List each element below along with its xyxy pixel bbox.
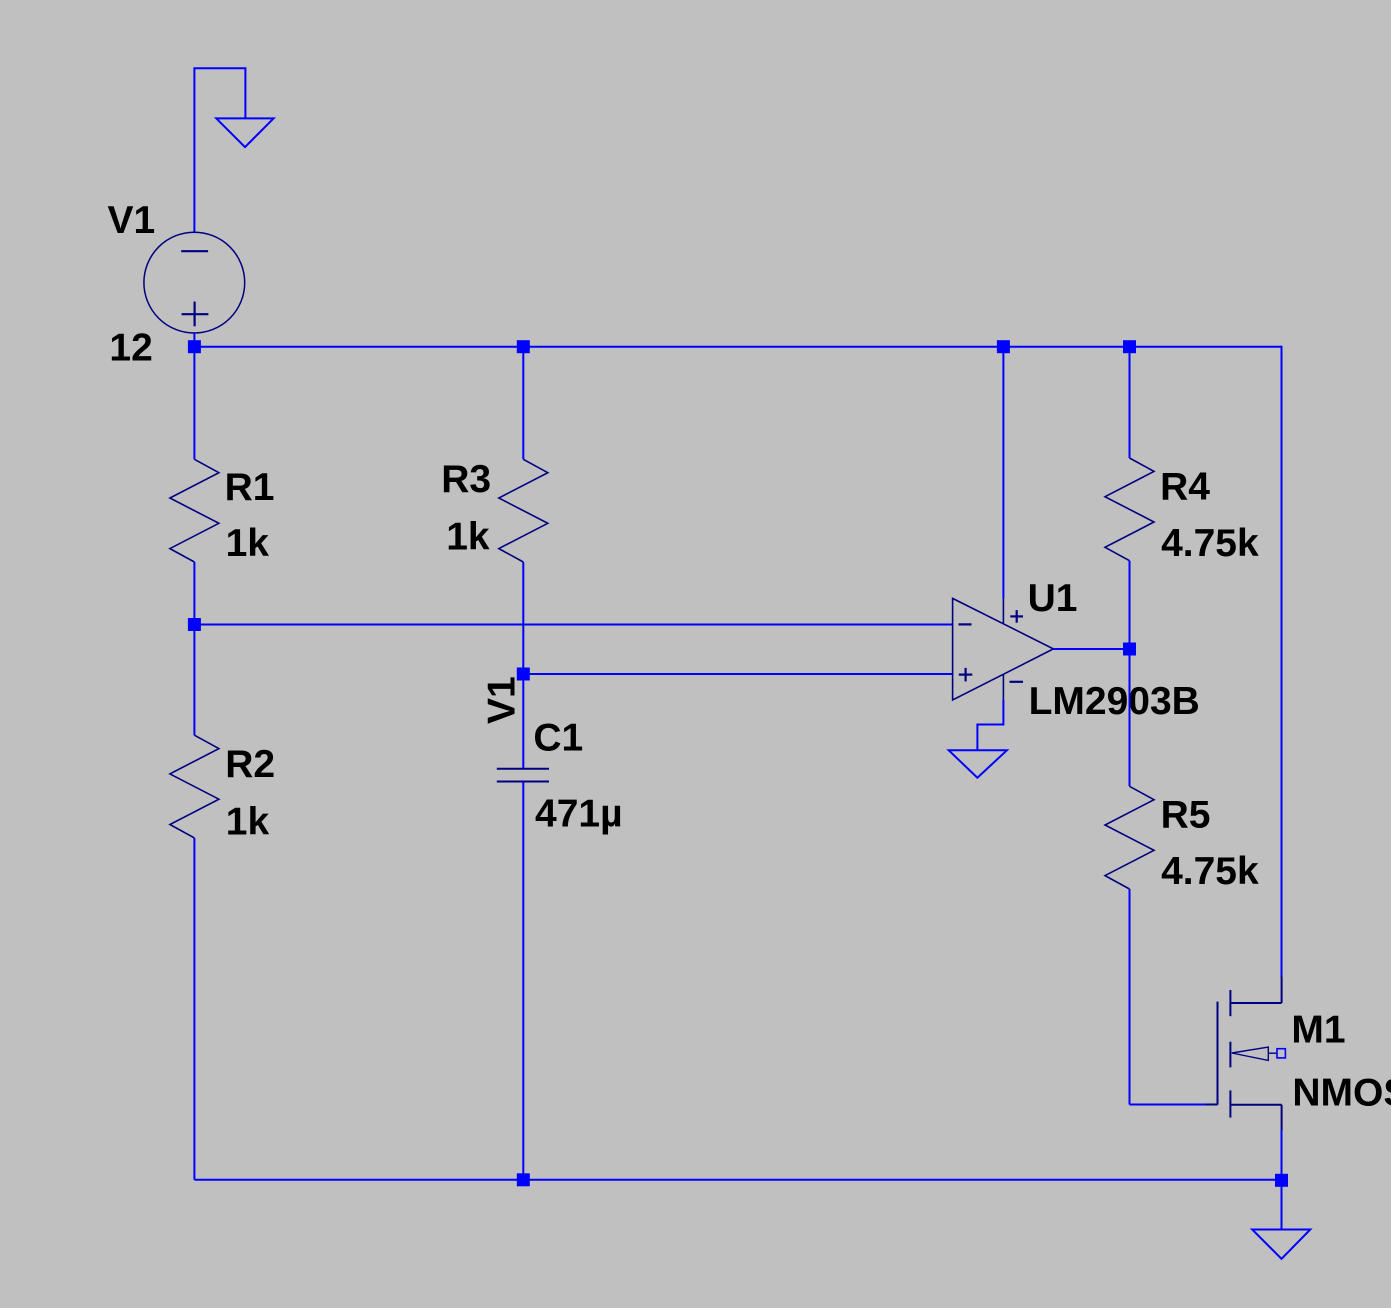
wire op-amp V- jog [977,700,1003,750]
node at op-amp output / R4 / R5 [1123,643,1136,656]
wire V1 bottom lead [193,333,195,347]
wire non-inverting input (horizontal) [523,673,952,675]
wire M1 source down [1281,1130,1283,1180]
node at C1 / bottom rail [517,1173,530,1186]
transistor M1 gate bar [1217,1002,1219,1105]
wire R3 top lead [522,347,524,460]
svg-text:1k: 1k [226,800,270,843]
wire bottom rail [194,1179,1281,1181]
svg-text:M1: M1 [1291,1008,1345,1051]
transistor M1 gate pin stub [1206,1104,1218,1106]
node at M1 source / bottom rail [1275,1174,1288,1187]
wire C1 top lead [522,674,524,769]
svg-text:R3: R3 [441,458,491,501]
wire R5 top lead [1129,649,1131,786]
wire top rail [194,346,1281,348]
wire R2 bottom lead [193,838,195,1180]
wire R4 bottom lead [1129,561,1131,649]
transistor M1 source pin stub [1281,1105,1283,1131]
svg-text:U1: U1 [1028,577,1078,620]
svg-text:LM2903B: LM2903B [1029,680,1200,723]
node at R3/C1 [517,668,530,681]
op-amp V- pin stub [1002,674,1004,700]
svg-text:V1: V1 [481,676,524,724]
resistor R1 [170,459,219,562]
ground (top, near V1) [216,118,273,147]
transistor M1 source channel bar [1229,1090,1231,1117]
wire C1 bottom lead [522,782,524,1180]
resistor R3 [499,459,548,562]
svg-text:R4: R4 [1160,465,1210,508]
voltage source V1 circle [144,232,245,333]
svg-text:R5: R5 [1161,794,1211,837]
wire R2 top lead [193,625,195,736]
capacitor C1 [497,768,549,770]
svg-text:471µ: 471µ [535,792,623,835]
resistor R5 [1105,786,1154,889]
svg-text:4.75k: 4.75k [1161,522,1259,565]
svg-text:1k: 1k [446,516,490,559]
svg-text:12: 12 [109,327,152,370]
wire right rail [1281,346,1283,978]
wire inverting input (long horizontal) [194,624,952,626]
node at R1/R2 divider [188,618,201,631]
transistor M1 body pin square [1277,1049,1285,1058]
resistor R2 [170,735,219,838]
wire op-amp V+ supply [1002,347,1004,599]
node at R3 / top rail [517,340,530,353]
ground (bottom right) [1252,1230,1310,1259]
wire R4 top lead [1129,347,1131,458]
node at V1 / top rail [188,340,201,353]
transistor M1 body channel bar [1229,1042,1231,1068]
wire ground lead (bottom right) [1281,1180,1283,1230]
node at R4 / top rail [1123,340,1136,353]
V1 plus mark [182,313,209,315]
op-amp V+ pin stub [1002,598,1004,623]
V1 minus mark [181,250,208,252]
op-amp V- mark [1010,681,1024,683]
wire R3 bottom lead [522,562,524,674]
ground (below op-amp) [949,750,1007,777]
svg-text:NMOS: NMOS [1292,1071,1391,1114]
transistor M1 source lead [1230,1104,1281,1106]
svg-text:1k: 1k [226,522,270,565]
svg-text:4.75k: 4.75k [1161,850,1259,893]
wire gate [1130,1104,1206,1106]
transistor M1 drain pin stub [1281,977,1283,1004]
wire top jog vertical [244,67,246,118]
transistor M1 drain channel bar [1229,990,1231,1016]
resistor R4 [1105,458,1154,561]
wire R1 top lead [193,347,195,460]
op-amp U1 triangle [953,598,1054,700]
transistor M1 body arrow [1232,1047,1269,1060]
svg-text:R1: R1 [225,466,275,509]
wire R1 bottom lead [193,562,195,625]
op-amp inverting input mark [959,623,972,625]
op-amp non-inverting input mark [959,673,973,675]
transistor M1 drain lead [1230,1002,1281,1004]
op-amp V+ mark [1010,615,1023,617]
svg-text:R2: R2 [225,743,275,786]
wire R5 bottom lead [1129,889,1131,1105]
wire V1 top lead [193,68,195,232]
wire op-amp output [1053,648,1129,650]
svg-text:C1: C1 [533,717,583,760]
svg-text:V1: V1 [108,199,156,242]
node at op-amp power / top rail [997,340,1010,353]
wire top jog horizontal [193,67,245,69]
